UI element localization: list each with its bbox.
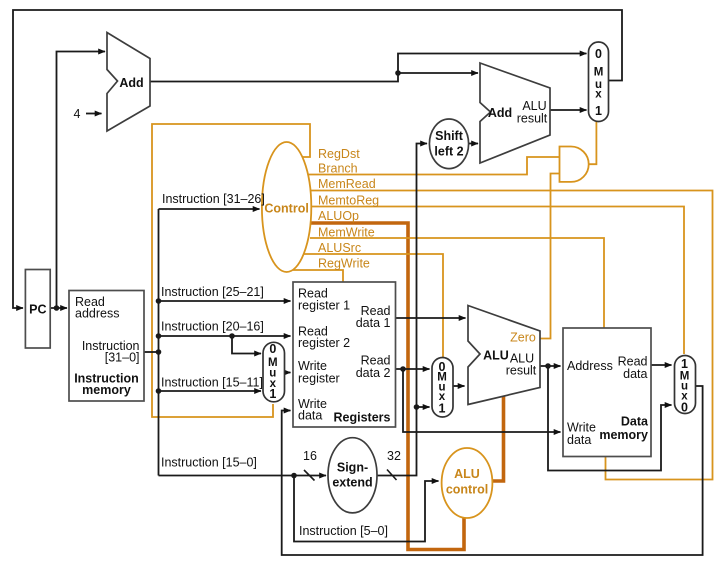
svg-text:ALU: ALU <box>483 349 509 363</box>
wire instruction [20-16] tap down to write-register mux input 0 <box>232 336 261 354</box>
wire ALU result to data memory address <box>540 365 561 367</box>
svg-text:PC: PC <box>29 303 46 317</box>
ALU-input mux <box>432 358 453 418</box>
wire instruction bus vertical <box>158 209 160 476</box>
svg-text:Add: Add <box>119 76 143 90</box>
svg-text:control: control <box>446 483 488 497</box>
svg-text:result: result <box>517 112 548 126</box>
wire PC output to instruction memory read address <box>50 307 67 309</box>
wire ALU-input mux output to ALU <box>453 385 465 387</box>
svg-text:1: 1 <box>439 402 446 416</box>
svg-text:Instruction [20–16]: Instruction [20–16] <box>161 320 264 334</box>
junction ALU result split <box>545 363 551 369</box>
svg-text:M: M <box>594 67 604 79</box>
registers box <box>293 282 396 427</box>
svg-text:register: register <box>298 372 340 386</box>
wire constant 4 into Add <box>86 113 102 115</box>
svg-text:4: 4 <box>74 107 81 121</box>
wire read data 2 tap down to data memory write data <box>403 369 561 432</box>
junction sign-extend output split <box>414 404 420 410</box>
junction read data 2 split <box>400 366 406 372</box>
svg-text:0: 0 <box>681 401 688 415</box>
wire MemtoReg: control to right mux select <box>311 207 684 355</box>
junction PC output <box>54 305 60 311</box>
wire PC feedback loop: top mux output, along top, down left, into PC <box>13 10 622 308</box>
svg-text:1: 1 <box>269 387 276 401</box>
wire Branch: control to AND gate top input <box>308 157 560 175</box>
junction bus instruction [15-11] <box>156 388 162 394</box>
wire AND gate output to top mux select <box>589 122 597 165</box>
adder Add ALU result (branch target) <box>480 63 550 163</box>
junction instruction [15-0] / [5-0] split <box>291 473 297 479</box>
svg-text:Add: Add <box>488 106 512 120</box>
wire Zero: ALU zero output up to AND gate bottom input <box>540 174 560 339</box>
wire read data 2 to ALU-input mux input 0 <box>396 368 430 370</box>
wire MemWrite: control to data memory top <box>310 238 604 328</box>
junction bus instruction [20-16] <box>156 333 162 339</box>
svg-text:Instruction [25–21]: Instruction [25–21] <box>161 285 264 299</box>
svg-text:result: result <box>506 364 537 378</box>
svg-text:data 2: data 2 <box>356 366 391 380</box>
svg-text:16: 16 <box>303 449 317 463</box>
svg-text:0: 0 <box>269 342 276 356</box>
top mux (PC source) <box>589 42 609 122</box>
wire instruction [5-0] down and into ALU control <box>294 476 439 542</box>
wire junction to top mux input 0 <box>398 54 587 74</box>
wire PC tap up to Add input <box>57 52 106 309</box>
svg-text:Address: Address <box>567 359 613 373</box>
right mux (write-back source) <box>675 356 696 414</box>
control unit oval <box>262 142 311 272</box>
svg-text:Instruction [31–26]: Instruction [31–26] <box>162 192 265 206</box>
adder Add (PC+4) <box>107 33 150 132</box>
svg-text:RegWrite: RegWrite <box>318 257 370 271</box>
wire data memory read data to right mux input 1 <box>651 364 672 366</box>
svg-text:ALU: ALU <box>454 467 480 481</box>
shift left 2 oval <box>429 119 468 169</box>
svg-text:Sign-: Sign- <box>337 461 368 475</box>
svg-text:ALUSrc: ALUSrc <box>318 241 361 255</box>
svg-text:data: data <box>567 433 591 447</box>
wire instruction [15-0] to sign-extend <box>159 475 327 477</box>
svg-text:RegDst: RegDst <box>318 147 360 161</box>
svg-text:memory: memory <box>599 428 648 442</box>
wire sign-extend tap to ALU-input mux input 1 <box>417 406 430 408</box>
svg-text:x: x <box>595 89 602 101</box>
svg-text:Instruction [5–0]: Instruction [5–0] <box>299 524 388 538</box>
sign-extend oval <box>328 438 377 513</box>
junction bus instruction [25-21] <box>156 298 162 304</box>
data memory box <box>563 328 651 457</box>
svg-text:memory: memory <box>82 383 131 397</box>
wire ALUSrc: control to ALU-input mux select <box>304 254 443 358</box>
wire Add output to step-up junction <box>150 73 398 82</box>
wire write-register mux output to registers <box>284 372 291 374</box>
svg-text:data: data <box>623 367 647 381</box>
instruction memory box <box>69 291 144 402</box>
AND gate <box>560 147 589 182</box>
ALU <box>468 306 540 405</box>
svg-text:Branch: Branch <box>318 162 358 176</box>
wire ALU result down around to right mux input 0 <box>548 366 672 471</box>
wire branch adder output to top mux input 1 <box>550 109 587 111</box>
wire RegDst path: control to write-register mux select <box>152 124 310 417</box>
svg-text:MemWrite: MemWrite <box>318 226 375 240</box>
svg-text:Zero: Zero <box>510 331 536 345</box>
wire instruction [20-16] to read register 2 <box>159 335 291 337</box>
wire instruction [31-26] into control <box>159 208 260 210</box>
svg-text:register 2: register 2 <box>298 336 350 350</box>
svg-text:Shift: Shift <box>435 129 464 143</box>
svg-text:data: data <box>298 409 322 423</box>
wire write-back: right mux output down, along bottom, up to registers write data <box>282 386 703 555</box>
svg-text:MemtoReg: MemtoReg <box>318 194 379 208</box>
wire instruction memory output to bus <box>144 351 159 353</box>
svg-text:register 1: register 1 <box>298 299 350 313</box>
wire instruction [15-11] to write-register mux input 1 <box>159 390 262 392</box>
svg-text:Instruction [15–0]: Instruction [15–0] <box>161 456 257 470</box>
svg-text:Registers: Registers <box>334 411 391 425</box>
svg-text:address: address <box>75 307 119 321</box>
svg-text:0: 0 <box>595 47 602 61</box>
svg-text:1: 1 <box>595 104 602 118</box>
wire MemRead: control right, down right edge, into data memory bottom <box>311 191 713 480</box>
write-register mux <box>263 342 285 402</box>
junction add output split <box>395 70 401 76</box>
PC register box <box>25 270 50 349</box>
svg-text:MemRead: MemRead <box>318 177 376 191</box>
svg-text:1: 1 <box>681 357 688 371</box>
svg-text:32: 32 <box>387 449 401 463</box>
svg-text:extend: extend <box>332 476 372 490</box>
svg-text:left 2: left 2 <box>434 145 463 159</box>
svg-text:Data: Data <box>621 415 649 429</box>
wire shift left 2 output to branch adder bottom input <box>469 143 479 145</box>
wire instruction [25-21] to read register 1 <box>159 300 291 302</box>
wire junction to branch adder top input <box>398 72 478 74</box>
svg-text:ALUOp: ALUOp <box>318 209 359 223</box>
junction bus instruction [31-0] <box>156 349 162 355</box>
svg-text:Control: Control <box>264 202 308 216</box>
wire ALUOp (thick): control down, along bottom, up into ALU control <box>311 223 465 550</box>
wire ALU control output (thick) into ALU bottom <box>493 396 504 482</box>
wire RegWrite: control to registers top <box>293 270 343 282</box>
wire sign-extend output right then up to shift left 2 <box>377 144 427 476</box>
ALU control oval <box>442 448 493 518</box>
svg-text:data 1: data 1 <box>356 316 391 330</box>
svg-text:Instruction [15–11]: Instruction [15–11] <box>161 376 263 390</box>
junction instruction [20-16] tap <box>229 333 235 339</box>
svg-text:[31–0]: [31–0] <box>105 351 140 365</box>
wire read data 1 to ALU <box>396 317 466 319</box>
